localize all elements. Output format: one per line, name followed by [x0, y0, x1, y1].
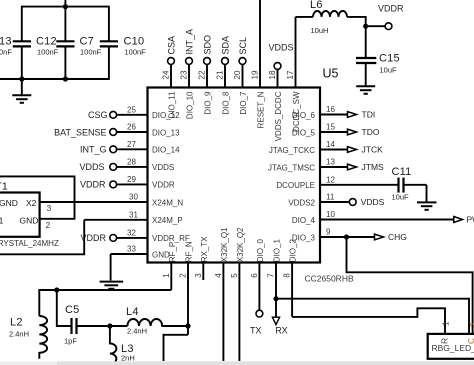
svg-text:6: 6 — [250, 273, 259, 278]
svg-text:16: 16 — [326, 105, 335, 114]
svg-text:13: 13 — [326, 158, 335, 167]
svg-text:DIO_6: DIO_6 — [292, 111, 316, 120]
svg-text:VDDS: VDDS — [269, 43, 294, 53]
svg-text:L4: L4 — [126, 306, 139, 318]
svg-text:30: 30 — [129, 193, 138, 202]
svg-text:29: 29 — [127, 175, 136, 184]
svg-text:2.4nH: 2.4nH — [127, 327, 147, 336]
svg-text:VDDR: VDDR — [378, 4, 404, 14]
svg-text:10: 10 — [326, 210, 335, 219]
svg-text:2: 2 — [46, 220, 51, 230]
svg-text:17: 17 — [286, 70, 295, 79]
svg-text:X24M_P: X24M_P — [152, 216, 183, 225]
svg-text:3: 3 — [194, 273, 203, 278]
svg-text:14: 14 — [326, 140, 335, 149]
svg-text:JTAG_TCKC: JTAG_TCKC — [269, 146, 315, 155]
svg-text:RESET_N: RESET_N — [257, 91, 266, 128]
svg-text:DIO_9: DIO_9 — [204, 91, 213, 115]
svg-text:VDDS: VDDS — [361, 197, 385, 207]
svg-text:22: 22 — [198, 70, 207, 79]
svg-text:32: 32 — [127, 228, 136, 237]
svg-text:X32K_Q2: X32K_Q2 — [236, 227, 245, 262]
svg-text:VDDR: VDDR — [152, 181, 175, 190]
svg-text:X2: X2 — [26, 198, 37, 208]
svg-text:GND: GND — [0, 198, 18, 208]
svg-text:CSG: CSG — [88, 110, 108, 120]
svg-text:DIO_13: DIO_13 — [152, 128, 180, 137]
svg-text:100nF: 100nF — [37, 48, 59, 57]
svg-text:2.4nH: 2.4nH — [9, 330, 29, 339]
svg-text:VDDS: VDDS — [79, 162, 104, 172]
svg-text:10uH: 10uH — [311, 26, 329, 35]
svg-text:15: 15 — [326, 123, 335, 132]
svg-text:X32K_Q1: X32K_Q1 — [220, 227, 229, 262]
svg-text:X1: X1 — [0, 215, 4, 225]
svg-text:VDDS: VDDS — [152, 163, 174, 172]
svg-text:8: 8 — [282, 273, 291, 278]
svg-text:DIO_4: DIO_4 — [292, 216, 316, 225]
svg-text:VDDR: VDDR — [80, 180, 106, 190]
svg-text:2: 2 — [469, 322, 474, 327]
svg-text:3: 3 — [47, 203, 52, 213]
svg-text:DIO_2: DIO_2 — [288, 239, 297, 263]
svg-text:SDA: SDA — [221, 36, 231, 55]
svg-text:27: 27 — [127, 140, 136, 149]
svg-text:28: 28 — [127, 157, 136, 166]
svg-text:9: 9 — [326, 228, 331, 237]
svg-text:2nH: 2nH — [121, 354, 135, 363]
svg-text:JTCK: JTCK — [362, 145, 384, 155]
svg-text:1: 1 — [442, 321, 451, 326]
svg-text:RX: RX — [275, 325, 288, 335]
svg-text:VDDS2: VDDS2 — [288, 198, 315, 207]
svg-text:L6: L6 — [310, 0, 323, 11]
svg-text:DIO_10: DIO_10 — [186, 91, 195, 119]
svg-text:100nF: 100nF — [80, 48, 102, 57]
svg-text:5: 5 — [230, 273, 239, 278]
svg-text:10uF: 10uF — [392, 192, 410, 201]
svg-text:DIO_5: DIO_5 — [292, 128, 316, 137]
svg-text:4: 4 — [214, 273, 223, 278]
svg-text:10uF: 10uF — [380, 66, 398, 75]
svg-text:CRYSTAL_24MHZ: CRYSTAL_24MHZ — [0, 239, 59, 248]
svg-text:TX: TX — [250, 325, 262, 335]
svg-text:0nF: 0nF — [0, 48, 12, 57]
svg-text:T1: T1 — [0, 180, 8, 192]
svg-text:SCL: SCL — [238, 37, 248, 55]
svg-text:13: 13 — [0, 36, 12, 48]
svg-text:C7: C7 — [80, 36, 94, 48]
svg-text:TDI: TDI — [362, 110, 376, 120]
svg-text:DIO_12: DIO_12 — [152, 111, 180, 120]
svg-text:12: 12 — [326, 175, 335, 184]
svg-text:1pF: 1pF — [64, 337, 77, 346]
svg-text:CHG: CHG — [388, 232, 407, 242]
svg-text:C11: C11 — [392, 166, 412, 178]
svg-text:19: 19 — [251, 70, 260, 79]
svg-text:RX_TX: RX_TX — [200, 236, 209, 262]
svg-text:2: 2 — [179, 273, 188, 278]
svg-text:BAT_SENSE: BAT_SENSE — [54, 127, 106, 137]
svg-text:26: 26 — [127, 123, 136, 132]
svg-text:7: 7 — [267, 273, 276, 278]
svg-text:DIO_7: DIO_7 — [239, 91, 248, 115]
svg-text:JTMS: JTMS — [362, 162, 385, 172]
svg-text:L2: L2 — [10, 317, 23, 329]
svg-text:C12: C12 — [36, 36, 57, 48]
svg-text:C15: C15 — [379, 53, 400, 65]
svg-text:JTAG_TMSC: JTAG_TMSC — [268, 163, 315, 172]
svg-text:INT_G: INT_G — [80, 145, 107, 155]
svg-text:20: 20 — [233, 70, 242, 79]
svg-text:VDDS_DCDC: VDDS_DCDC — [274, 91, 283, 141]
svg-text:DIO_14: DIO_14 — [152, 146, 180, 155]
svg-text:GND: GND — [20, 215, 39, 225]
svg-text:33: 33 — [127, 245, 136, 254]
svg-text:1: 1 — [162, 273, 171, 278]
svg-text:CSA: CSA — [167, 36, 177, 55]
svg-text:RF_N: RF_N — [185, 241, 194, 262]
svg-text:DIO_0: DIO_0 — [256, 239, 265, 263]
svg-text:DIO_8: DIO_8 — [222, 91, 231, 115]
svg-text:DIO_1: DIO_1 — [273, 239, 282, 263]
svg-text:24: 24 — [162, 70, 171, 79]
svg-text:CC2650RHB: CC2650RHB — [305, 274, 354, 284]
svg-text:23: 23 — [180, 70, 189, 79]
svg-text:31: 31 — [129, 210, 138, 219]
svg-text:C5: C5 — [65, 304, 79, 316]
svg-text:PW: PW — [467, 215, 474, 225]
svg-text:INT_A: INT_A — [185, 29, 195, 55]
svg-text:100nF: 100nF — [125, 48, 147, 57]
svg-text:X24M_N: X24M_N — [152, 198, 183, 207]
svg-text:SDO: SDO — [203, 35, 213, 55]
svg-text:11: 11 — [326, 193, 335, 202]
svg-text:TDO: TDO — [362, 127, 380, 137]
svg-text:DCOUPLE: DCOUPLE — [276, 181, 315, 190]
svg-text:18: 18 — [268, 70, 277, 79]
svg-text:RBG_LED_6: RBG_LED_6 — [432, 343, 474, 353]
svg-text:U5: U5 — [323, 67, 339, 81]
svg-text:21: 21 — [216, 70, 225, 79]
svg-text:RF_P: RF_P — [168, 242, 177, 262]
svg-text:25: 25 — [127, 105, 136, 114]
svg-text:C10: C10 — [124, 36, 145, 48]
